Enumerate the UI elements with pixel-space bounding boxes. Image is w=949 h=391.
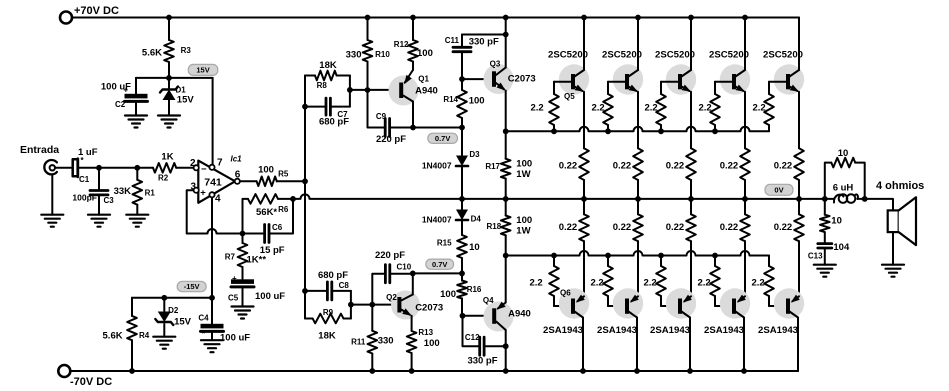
junction on +70V rail (581, 15, 587, 21)
transistor Q2 C2073 (386, 291, 443, 320)
svg-text:2.2: 2.2 (645, 103, 658, 114)
svg-text:330: 330 (378, 336, 394, 347)
svg-text:R9: R9 (323, 308, 334, 317)
wire Q2 collector (412, 273, 414, 294)
svg-text:R16: R16 (467, 285, 482, 294)
wire +15V node (136, 77, 213, 79)
junction 0.22/output bus (581, 196, 587, 202)
wire NPN base bus (506, 127, 769, 132)
svg-text:15V: 15V (177, 95, 195, 106)
junction R17/output bus (503, 196, 509, 202)
svg-text:0.22: 0.22 (666, 222, 685, 233)
resistor R16 100 (440, 273, 482, 315)
svg-text:330: 330 (346, 50, 362, 61)
junction 2.2/PNP bus (551, 253, 557, 259)
svg-text:0.22: 0.22 (613, 161, 632, 172)
resistor R7 1K** (225, 234, 267, 280)
resistor R14 100 (443, 79, 484, 127)
svg-text:R7: R7 (225, 253, 236, 262)
svg-text:330 pF: 330 pF (469, 37, 499, 48)
resistor 0.22 PNP #4 (720, 199, 750, 296)
capacitor C4 100uF (198, 298, 250, 352)
svg-text:+70V DC: +70V DC (74, 5, 119, 17)
svg-text:680 pF: 680 pF (319, 117, 349, 128)
svg-text:2SA1943: 2SA1943 (597, 325, 637, 336)
svg-text:1K: 1K (161, 152, 173, 163)
junction 2.2/PNP bus (605, 253, 611, 259)
junction R5 to VAS node (302, 178, 308, 184)
svg-text:100: 100 (469, 96, 485, 107)
svg-text:2SA1943: 2SA1943 (650, 325, 690, 336)
svg-text:2: 2 (190, 158, 196, 169)
junction R13/rail (409, 368, 415, 374)
svg-text:R13: R13 (418, 328, 433, 337)
wire Q2 collector to bias (413, 272, 462, 274)
wire output bus (293, 194, 893, 210)
junction 0.22/output bus (742, 196, 748, 202)
svg-text:R5: R5 (278, 170, 289, 179)
transistor 2SA1943 #4 (704, 288, 750, 336)
svg-text:0V: 0V (774, 186, 783, 195)
wire Q4 base (463, 315, 493, 317)
svg-text:0.7V: 0.7V (435, 134, 450, 143)
inductor 6uH (833, 183, 858, 203)
wire -15V node (132, 297, 212, 299)
svg-text:C9: C9 (376, 112, 387, 121)
resistor R10 330 (346, 18, 391, 91)
junction 2SA1943 collector/rail (634, 368, 640, 374)
svg-text:2SC5200: 2SC5200 (548, 50, 588, 61)
wire R2 to pin 2 (176, 167, 193, 169)
svg-text:7: 7 (217, 158, 223, 169)
svg-text:R17: R17 (485, 162, 500, 171)
svg-text:100: 100 (516, 215, 532, 226)
svg-text:C2073: C2073 (508, 74, 536, 85)
svg-text:15V: 15V (174, 317, 192, 328)
junction on +70V rail (410, 15, 416, 21)
label Ic1 (231, 155, 243, 164)
transistor 2SA1943 #3 (650, 288, 696, 336)
junction 2.2/PNP bus (658, 253, 664, 259)
wire R8/C7 right leg (349, 76, 351, 107)
svg-text:2SA1943: 2SA1943 (704, 325, 744, 336)
junction 2SA1943 collector/rail (687, 368, 693, 374)
junction Q4 collector/rail (503, 368, 509, 374)
svg-text:R4: R4 (139, 331, 150, 340)
svg-text:D3: D3 (469, 150, 480, 159)
svg-text:2.2: 2.2 (698, 278, 711, 289)
transistor 2SA1943 #5 (758, 288, 804, 336)
capacitor C8 680pF (305, 270, 351, 300)
svg-text:R2: R2 (158, 174, 169, 183)
transistor Q4 A940 (483, 296, 531, 332)
svg-text:100: 100 (424, 338, 440, 349)
resistor R6 56K* (243, 194, 294, 233)
wire 2SA1943 #2 base (608, 305, 625, 307)
svg-text:R11: R11 (351, 338, 366, 347)
junction C11 top (503, 32, 509, 38)
svg-text:100 uF: 100 uF (220, 333, 250, 344)
svg-text:18K: 18K (319, 60, 337, 71)
junction bias bottom (459, 271, 465, 277)
svg-text:2.2: 2.2 (644, 278, 657, 289)
junction NPN base bus start (503, 128, 509, 134)
svg-text:R3: R3 (181, 46, 192, 55)
svg-text:C2: C2 (115, 100, 126, 109)
resistor R9 18K (305, 308, 351, 342)
resistor 0.22 NPN #4 (720, 92, 750, 199)
junction 0.22/output bus (635, 196, 641, 202)
svg-text:5.6K: 5.6K (142, 48, 162, 59)
svg-text:100 uF: 100 uF (255, 291, 285, 302)
junction bias top (459, 125, 465, 131)
junction on +70V rail (503, 15, 509, 21)
junction 2SA1943 collector/rail (741, 368, 747, 374)
wire pin 3 feedback loop (187, 190, 243, 233)
transistor 2SA1943 #2 (597, 288, 643, 336)
resistor R4 5.6K (103, 298, 150, 371)
wire Q1 base (350, 89, 399, 91)
resistor 2.2 base PNP #2 (591, 256, 613, 307)
svg-text:Q4: Q4 (483, 296, 494, 305)
svg-text:2.2: 2.2 (530, 278, 543, 289)
svg-text:+: + (232, 274, 237, 283)
wire Q4 collector (505, 330, 507, 371)
resistor 0.22 NPN #1 (559, 92, 589, 199)
capacitor C5 100uF (228, 274, 285, 319)
transistor 2SC5200 #5 (763, 50, 804, 95)
svg-text:2.2: 2.2 (752, 278, 765, 289)
svg-text:6 uH: 6 uH (833, 183, 854, 194)
resistor 2.2 base NPN #1 (531, 82, 559, 132)
junction Q1 base leg (347, 87, 353, 93)
svg-text:2.2: 2.2 (753, 103, 766, 114)
junction on +70V rail (688, 15, 694, 21)
svg-text:220 pF: 220 pF (375, 250, 405, 261)
resistor 2.2 base PNP #4 (698, 256, 720, 307)
junction 2.2/NPN bus (658, 128, 664, 134)
svg-text:104: 104 (833, 242, 850, 253)
svg-text:D2: D2 (168, 306, 179, 315)
resistor R11 330 (351, 305, 393, 371)
svg-text:R12: R12 (394, 40, 409, 49)
svg-text:330 pF: 330 pF (467, 356, 497, 367)
svg-text:C2073: C2073 (415, 303, 443, 314)
junction PNP base bus start (503, 253, 509, 259)
junction 0.22/output bus (796, 196, 802, 202)
resistor 0.22 NPN #3 (666, 92, 696, 199)
svg-text:4: 4 (215, 194, 221, 205)
wire 2SA1943 #5 collector (797, 318, 799, 372)
svg-text:0.22: 0.22 (774, 222, 793, 233)
resistor R13 100 (407, 316, 440, 371)
diode D4 1N4007 (422, 199, 482, 235)
junction R3/C2/D1 (166, 75, 172, 81)
capacitor C11 330pF (445, 35, 506, 80)
junction C1/C3 (96, 165, 102, 171)
svg-text:Ic1: Ic1 (231, 155, 243, 164)
svg-text:1W: 1W (516, 169, 530, 180)
svg-text:Q6: Q6 (560, 289, 571, 298)
wire Q3 emitter column (505, 91, 507, 159)
svg-text:10: 10 (838, 148, 849, 159)
svg-text:2.2: 2.2 (592, 103, 605, 114)
junction R11/rail (369, 368, 375, 374)
svg-text:Q1: Q1 (418, 75, 429, 84)
svg-text:1W: 1W (516, 226, 530, 237)
junction D2 top (161, 295, 167, 301)
svg-text:A940: A940 (508, 309, 531, 320)
wire 2SC5200 #3 base (661, 81, 678, 83)
svg-text:2SC5200: 2SC5200 (763, 50, 803, 61)
junction Q4 base/C12 (460, 313, 466, 319)
junction L network right (862, 196, 868, 202)
junction on +70V rail (635, 15, 641, 21)
terminal +70V DC (60, 5, 119, 24)
wire Q1 collector to bias (413, 102, 462, 128)
svg-text:2SA1943: 2SA1943 (758, 325, 798, 336)
capacitor C6 15pF (243, 199, 294, 256)
svg-text:R10: R10 (375, 50, 390, 59)
capacitor C2 100uF (101, 78, 148, 128)
transistor 2SC5200 #2 (602, 50, 643, 95)
svg-text:100: 100 (516, 159, 532, 170)
wire Q2 base (351, 304, 398, 306)
resistor R18 100 1W (487, 199, 533, 302)
junction on +70V rail (742, 15, 748, 21)
junction Q3 base (459, 76, 465, 82)
label Q6 (560, 289, 571, 298)
svg-text:33K: 33K (114, 186, 132, 197)
resistor 2.2 base NPN #5 (753, 82, 774, 132)
transistor Q1 A940 (389, 70, 438, 106)
wire 2SC5200 #4 collector (744, 18, 746, 71)
junction feedback node (240, 231, 246, 237)
svg-text:0.22: 0.22 (613, 222, 632, 233)
svg-text:0.22: 0.22 (720, 222, 739, 233)
resistor 2.2 base NPN #2 (592, 82, 613, 132)
svg-text:C3: C3 (104, 196, 115, 205)
svg-text:R6: R6 (278, 205, 289, 214)
transistor Q3 C2073 (484, 60, 536, 95)
diode D3 1N4007 (422, 128, 480, 199)
svg-text:1K**: 1K** (247, 255, 267, 266)
svg-text:10: 10 (831, 216, 842, 227)
op-amp U1 741 (190, 158, 241, 205)
svg-text:Entrada: Entrada (20, 144, 59, 156)
capacitor C13 104 (808, 242, 850, 277)
svg-text:100: 100 (440, 289, 456, 300)
junction C12/Q4 collector (503, 343, 509, 349)
svg-text:0.22: 0.22 (666, 161, 685, 172)
svg-text:C8: C8 (339, 281, 350, 290)
junction bias/output bus (459, 196, 465, 202)
svg-text:6: 6 (235, 170, 241, 181)
resistor 10 zobel (820, 199, 842, 244)
svg-text:R15: R15 (437, 239, 452, 248)
wire 2SC5200 #1 collector (583, 18, 585, 71)
svg-text:1N4007: 1N4007 (422, 215, 452, 225)
connector input jack (41, 160, 63, 227)
resistor 2.2 base PNP #1 (530, 256, 559, 307)
svg-text:2.2: 2.2 (591, 278, 604, 289)
svg-text:D1: D1 (176, 86, 187, 95)
node -15V label (177, 281, 206, 291)
wire PNP base bus (506, 251, 769, 256)
junction pin4/-15V/C4 (209, 295, 215, 301)
svg-text:100: 100 (417, 48, 433, 59)
wire 2SC5200 #5 collector (798, 18, 800, 71)
svg-text:C12: C12 (465, 333, 480, 342)
svg-text:C6: C6 (272, 223, 283, 232)
svg-text:5.6K: 5.6K (103, 331, 123, 342)
wire 2SC5200 #1 base (554, 81, 571, 83)
label Q5 (564, 92, 575, 101)
svg-text:15V: 15V (196, 66, 209, 75)
transistor 2SC5200 #4 (709, 50, 750, 95)
resistor 0.22 PNP #5 (774, 199, 804, 296)
resistor 2.2 base NPN #4 (699, 82, 720, 132)
resistor 0.22 PNP #1 (559, 199, 589, 296)
svg-text:2SC5200: 2SC5200 (709, 50, 749, 61)
junction 0.22/output bus (688, 196, 694, 202)
label Entrada (20, 144, 59, 156)
resistor 2.2 base PNP #5 (752, 256, 774, 307)
resistor 0.22 PNP #3 (666, 199, 696, 296)
capacitor C7 680pF (305, 98, 350, 127)
svg-text:C5: C5 (228, 294, 239, 303)
junction 2.2/NPN bus (551, 128, 557, 134)
svg-text:0.22: 0.22 (720, 161, 739, 172)
junction C3/R1 (134, 165, 140, 171)
junction 2.2/PNP bus (712, 253, 718, 259)
transistor 2SC5200 #1 (548, 50, 589, 95)
junction 2.2/NPN bus (712, 128, 718, 134)
wire 2SA1943 #1 base (554, 305, 571, 307)
svg-text:4 ohmios: 4 ohmios (876, 180, 924, 192)
svg-text:D4: D4 (471, 215, 482, 224)
node 0.7V label bottom (426, 259, 454, 269)
svg-text:−: − (201, 164, 207, 175)
resistor R5 100 (240, 165, 305, 187)
capacitor C10 220pF (372, 250, 413, 305)
svg-text:100: 100 (258, 165, 274, 176)
wire 2SC5200 #2 base (608, 81, 625, 83)
svg-text:680 pF: 680 pF (318, 270, 348, 281)
wire 2SC5200 #5 base (769, 81, 786, 83)
wire 2SC5200 #3 collector (690, 18, 692, 71)
terminal -70V DC (58, 365, 112, 388)
zener D2 15V (153, 298, 191, 349)
svg-text:741: 741 (204, 177, 222, 189)
svg-text:-15V: -15V (184, 282, 200, 291)
svg-text:100pF: 100pF (72, 193, 97, 203)
wire R9/C8 right leg (350, 291, 352, 319)
transistor 2SC5200 #3 (655, 50, 696, 95)
capacitor C9 220pF (368, 90, 414, 145)
wire 2SC5200 #4 base (715, 81, 732, 83)
resistor R17 100 1W (485, 159, 532, 199)
wire Q3 collector (505, 18, 507, 68)
wire Q3 base (462, 78, 492, 80)
junction L network left (822, 196, 828, 202)
svg-text:2.2: 2.2 (531, 103, 544, 114)
node 0V label (765, 184, 793, 195)
svg-text:Q3: Q3 (490, 60, 501, 69)
resistor 0.22 NPN #2 (613, 92, 643, 199)
transistor 2SA1943 #1 (543, 288, 589, 336)
svg-text:+: + (124, 86, 129, 95)
node 0.7V label top (428, 133, 458, 143)
svg-text:2SC5200: 2SC5200 (655, 50, 695, 61)
capacitor C3 100pF (72, 168, 114, 227)
junction Q2 base leg (348, 302, 354, 308)
wire 2SA1943 #4 collector (743, 318, 745, 372)
junction C7 left (302, 104, 308, 110)
svg-text:C1: C1 (79, 175, 90, 184)
capacitor C1 1uF (55, 147, 98, 184)
junction C8 left (302, 288, 308, 294)
svg-text:A940: A940 (415, 86, 438, 97)
svg-text:2SA1943: 2SA1943 (543, 325, 583, 336)
wire 2SA1943 #1 collector (582, 318, 584, 372)
svg-text:220 pF: 220 pF (376, 134, 406, 145)
resistor R1 33K (114, 168, 156, 227)
wire input node (79, 167, 153, 169)
node +15V label (188, 64, 218, 75)
wire +70V rail (72, 17, 799, 19)
svg-text:C4: C4 (198, 314, 209, 323)
svg-text:Q5: Q5 (564, 92, 575, 101)
svg-text:2SC5200: 2SC5200 (602, 50, 642, 61)
wire 2SA1943 #4 base (715, 305, 732, 307)
resistor 2.2 base NPN #3 (645, 82, 666, 132)
svg-text:R18: R18 (487, 222, 502, 231)
junction R10/Q1 base (365, 87, 371, 93)
wire -70V rail (70, 370, 798, 372)
wire 2SA1943 #2 collector (636, 318, 638, 372)
resistor R3 5.6K (142, 18, 191, 78)
resistor R2 1K (153, 152, 176, 183)
junction R4/rail (129, 368, 135, 374)
svg-text:+: + (200, 187, 206, 198)
svg-text:56K*: 56K* (256, 207, 277, 218)
svg-text:C11: C11 (445, 36, 460, 45)
svg-text:18K: 18K (318, 331, 336, 342)
junction on +70V rail (365, 15, 371, 21)
capacitor C12 330pF (463, 316, 506, 367)
wire +15V to pin 7 (212, 78, 214, 165)
resistor 0.22 PNP #2 (613, 199, 643, 296)
wire 2SA1943 #3 collector (689, 318, 691, 372)
resistor R12 100 (394, 18, 433, 71)
junction on +70V rail (166, 15, 172, 21)
resistor 0.22 NPN #5 (774, 92, 804, 199)
svg-text:10: 10 (469, 242, 480, 253)
wire pin 4 to -15V (211, 197, 213, 297)
wire 2SC5200 #2 collector (637, 18, 639, 71)
svg-text:0.22: 0.22 (774, 161, 793, 172)
svg-text:0.22: 0.22 (559, 222, 578, 233)
wire 2SA1943 #5 base (769, 305, 786, 307)
svg-text:-70V DC: -70V DC (70, 376, 112, 388)
svg-text:0.22: 0.22 (559, 161, 578, 172)
svg-text:R14: R14 (443, 95, 458, 104)
resistor R8 18K (305, 60, 350, 90)
junction 2.2/NPN bus (605, 128, 611, 134)
svg-text:R1: R1 (145, 189, 156, 198)
svg-text:R8: R8 (317, 81, 328, 90)
